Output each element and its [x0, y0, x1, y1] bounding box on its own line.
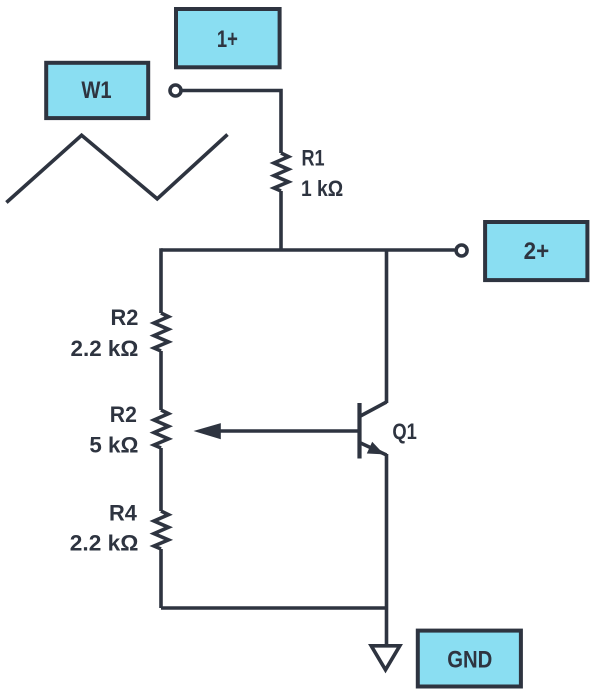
wire R4 to bottom rail [159, 549, 163, 608]
svg-text:GND: GND [447, 647, 492, 674]
wire Q1 emitter down to ground [385, 454, 389, 645]
resistor R2 (2.2k) [154, 313, 169, 351]
resistor R1 [274, 153, 289, 191]
wire R1 bottom to node row [279, 191, 283, 250]
transistor Q1 collector stroke [360, 402, 387, 417]
terminal box 1+ [176, 9, 280, 67]
terminal box W1 [46, 63, 148, 118]
wire left branch top [159, 248, 163, 313]
transistor Q1 base bar [357, 403, 361, 459]
wire between R2 and R2 5k [159, 351, 163, 410]
resistor R4 (2.2k) [154, 511, 169, 549]
svg-text:1+: 1+ [217, 26, 238, 53]
wire node row to 2+ terminal [161, 248, 455, 252]
potentiometer R2 (5k) [154, 410, 169, 448]
svg-text:2+: 2+ [524, 238, 550, 265]
bottom rail wire [161, 606, 387, 610]
transistor Q1 emitter stroke [360, 443, 387, 456]
svg-text:2.2 kΩ: 2.2 kΩ [70, 531, 139, 556]
svg-text:R4: R4 [109, 501, 137, 526]
wire W1 terminal to R1 top [182, 91, 281, 154]
terminal box GND [418, 631, 521, 687]
wire Q1 collector to node row [385, 250, 389, 403]
ground symbol [371, 646, 400, 670]
wire between R2 5k and R4 [159, 448, 163, 511]
svg-text:Q1: Q1 [392, 419, 417, 444]
waveform icon (triangle wave) [6, 135, 227, 203]
svg-text:5 kΩ: 5 kΩ [89, 433, 138, 458]
node W1 output terminal [170, 85, 181, 96]
svg-text:R2: R2 [110, 402, 137, 427]
svg-text:R1: R1 [302, 145, 325, 170]
node 2+ terminal [456, 245, 467, 256]
svg-text:1 kΩ: 1 kΩ [301, 176, 343, 201]
svg-text:W1: W1 [81, 77, 111, 104]
wiper arrow line (R2 5k wiper to Q1 base) [218, 429, 358, 433]
transistor Q1 emitter arrowhead [367, 442, 384, 455]
terminal box 2+ [485, 222, 587, 280]
svg-text:R2: R2 [111, 305, 139, 330]
svg-text:2.2 kΩ: 2.2 kΩ [71, 336, 139, 361]
wiper arrowhead [194, 423, 221, 439]
